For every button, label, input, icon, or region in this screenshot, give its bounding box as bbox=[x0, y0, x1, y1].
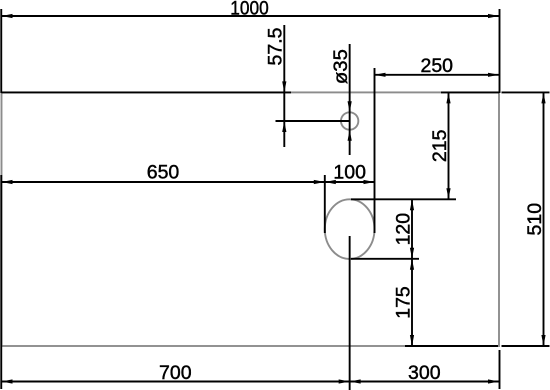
svg-text:175: 175 bbox=[392, 286, 414, 319]
sink cutout oval 100x120 bbox=[325, 199, 375, 259]
svg-text:700: 700 bbox=[159, 362, 192, 384]
extension line bottom edge right segment (175/510 dim) bbox=[405, 345, 498, 347]
dimension 300 line bbox=[350, 381, 499, 383]
arrow 100 right bbox=[364, 180, 375, 184]
arrow 120 down bbox=[410, 248, 414, 259]
arrow 120 up bbox=[410, 199, 414, 210]
extension line bottom right (300 dim) bbox=[499, 350, 501, 389]
svg-text:1000: 1000 bbox=[230, 0, 269, 20]
extension line at 650 mark (650/100 dim) bbox=[324, 175, 326, 233]
extension line faucet center horizontal (57.5 dim) bbox=[276, 120, 350, 122]
extension line at 250 mark (250/100 dim) bbox=[374, 68, 376, 233]
dimension 250 line bbox=[375, 74, 500, 76]
arrow 510 down bbox=[541, 335, 545, 346]
extension line top right outside (510 dim) bbox=[502, 91, 550, 93]
svg-text:120: 120 bbox=[392, 213, 414, 246]
arrow 300 left bbox=[350, 379, 361, 383]
svg-text:650: 650 bbox=[147, 162, 180, 184]
extension line top edge left segment (57.5 dim) bbox=[2, 91, 292, 93]
dimension 100 line bbox=[325, 181, 375, 183]
arrow 1000 left bbox=[2, 14, 13, 18]
extension line oval top tangent (215/120 dim) bbox=[351, 198, 456, 200]
svg-text:ø35: ø35 bbox=[330, 49, 352, 84]
arrow ø35 down bbox=[348, 101, 352, 112]
arrow 175 down bbox=[410, 335, 414, 346]
dimension 57.5 line bbox=[283, 25, 285, 147]
extension line sink centerline vertical (700/300 dim) bbox=[349, 236, 351, 390]
arrow 300 right bbox=[488, 379, 499, 383]
dimension 650 line bbox=[2, 181, 325, 183]
extension line bottom right outside (510 dim) bbox=[502, 345, 550, 347]
arrow 215 up bbox=[446, 92, 450, 103]
extension line oval bottom tangent (120/175 dim) bbox=[351, 258, 419, 260]
extension line left edge overdraw (650/700 dim) bbox=[0, 175, 2, 389]
dimension 510 line bbox=[543, 92, 545, 346]
faucet hole circle ø35 bbox=[341, 112, 358, 129]
arrow 175 up bbox=[410, 259, 414, 270]
arrow 700 right bbox=[339, 379, 350, 383]
dimension 1000 line bbox=[2, 15, 500, 17]
arrow 250 right bbox=[488, 73, 499, 77]
extension line top edge right segment (215 dim) bbox=[441, 91, 499, 93]
dimension ø35 line bbox=[349, 44, 351, 155]
dimension 120 line bbox=[411, 199, 413, 258]
dimension 215 line bbox=[448, 92, 450, 199]
arrow 100 left bbox=[325, 180, 336, 184]
arrow 1000 right bbox=[488, 14, 499, 18]
extension line left (1000 dim) bbox=[0, 9, 2, 93]
extension line right (1000/250 dim) bbox=[499, 9, 501, 93]
arrow 250 left bbox=[375, 73, 386, 77]
arrow ø35 up bbox=[348, 130, 352, 141]
arrow 650 left bbox=[2, 180, 13, 184]
arrow 650 right bbox=[314, 180, 325, 184]
dimension 700 line bbox=[2, 381, 350, 383]
worktop outline rectangle 1000x510 bbox=[2, 92, 500, 346]
svg-text:100: 100 bbox=[333, 162, 366, 184]
arrow 57.5 up bbox=[282, 121, 286, 132]
arrow 215 down bbox=[446, 188, 450, 199]
svg-text:250: 250 bbox=[420, 55, 453, 77]
dimension 175 line bbox=[411, 259, 413, 346]
svg-text:510: 510 bbox=[524, 203, 546, 236]
arrow 57.5 down bbox=[282, 81, 286, 92]
arrow 700 left bbox=[2, 379, 13, 383]
svg-text:57.5: 57.5 bbox=[265, 27, 287, 65]
svg-text:215: 215 bbox=[429, 129, 451, 162]
arrow 510 up bbox=[541, 92, 545, 103]
svg-text:300: 300 bbox=[408, 362, 441, 384]
